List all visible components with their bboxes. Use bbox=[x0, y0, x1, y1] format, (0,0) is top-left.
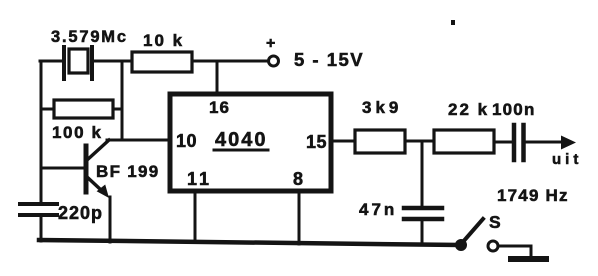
wire emitter to ground rail bbox=[109, 197, 112, 242]
crystal X1 3.579Mc bbox=[51, 28, 128, 79]
wire switch to ground bar bbox=[499, 246, 531, 257]
wire 3k9 to 22k bbox=[405, 140, 434, 143]
wire base lead bbox=[41, 167, 86, 170]
wire output uit arrow bbox=[526, 136, 582, 169]
resistor R3 22k bbox=[434, 100, 494, 153]
svg-text:+: + bbox=[266, 35, 275, 52]
svg-text:16: 16 bbox=[209, 98, 230, 117]
svg-text:100 k: 100 k bbox=[52, 123, 103, 142]
svg-text:1749 Hz: 1749 Hz bbox=[497, 186, 569, 205]
wire pin16 bbox=[216, 61, 219, 92]
wire 100k right lead bbox=[113, 108, 122, 111]
wire left vertical upper bbox=[40, 61, 43, 203]
svg-text:15: 15 bbox=[306, 132, 327, 152]
svg-text:220p: 220p bbox=[58, 203, 103, 223]
svg-text:10 k: 10 k bbox=[143, 31, 184, 50]
wire left vertical lower bbox=[40, 216, 43, 241]
svg-text:10: 10 bbox=[176, 131, 197, 151]
transistor Q1 BF199 bbox=[86, 140, 160, 198]
ground rail bbox=[39, 240, 459, 245]
svg-text:4040: 4040 bbox=[215, 129, 268, 151]
ground bbox=[511, 256, 546, 262]
speck artifact bbox=[451, 20, 455, 25]
wire supply rail bbox=[192, 60, 268, 63]
svg-text:8: 8 bbox=[293, 169, 303, 189]
terminal + 5-15V bbox=[266, 35, 364, 70]
svg-text:S: S bbox=[489, 212, 501, 232]
resistor 100k bbox=[52, 100, 113, 142]
svg-text:11: 11 bbox=[187, 169, 212, 189]
wire 100k left lead bbox=[41, 108, 54, 111]
svg-text:BF 199: BF 199 bbox=[96, 162, 160, 181]
wire 22k to 100n bbox=[494, 141, 511, 144]
svg-text:3.579Mc: 3.579Mc bbox=[51, 28, 128, 46]
wire crystal left lead bbox=[40, 60, 63, 63]
wire crystal right lead bbox=[93, 60, 132, 63]
capacitor C1 220p bbox=[20, 203, 103, 223]
wire 47n to ground rail bbox=[421, 221, 424, 245]
svg-text:100n: 100n bbox=[492, 100, 536, 119]
wire node B vertical bbox=[121, 61, 124, 140]
IC U1 4040 counter bbox=[170, 94, 331, 191]
svg-text:uit: uit bbox=[552, 151, 582, 168]
wire pin11 bbox=[194, 191, 197, 242]
wire pin8 bbox=[298, 191, 301, 244]
svg-text:5 - 15V: 5 - 15V bbox=[294, 49, 364, 70]
capacitor C2 47n bbox=[359, 200, 442, 219]
svg-text:3k9: 3k9 bbox=[362, 98, 402, 117]
capacitor C3 100n bbox=[492, 100, 536, 160]
wire 47n branch bbox=[421, 141, 424, 205]
wire pin10 bbox=[107, 139, 170, 142]
wire pin15 bbox=[331, 140, 355, 143]
svg-text:47n: 47n bbox=[359, 200, 397, 219]
svg-text:22 k: 22 k bbox=[448, 100, 489, 119]
resistor 10k bbox=[132, 31, 192, 72]
switch S bbox=[455, 212, 501, 251]
resistor R2 3k9 bbox=[355, 98, 405, 153]
